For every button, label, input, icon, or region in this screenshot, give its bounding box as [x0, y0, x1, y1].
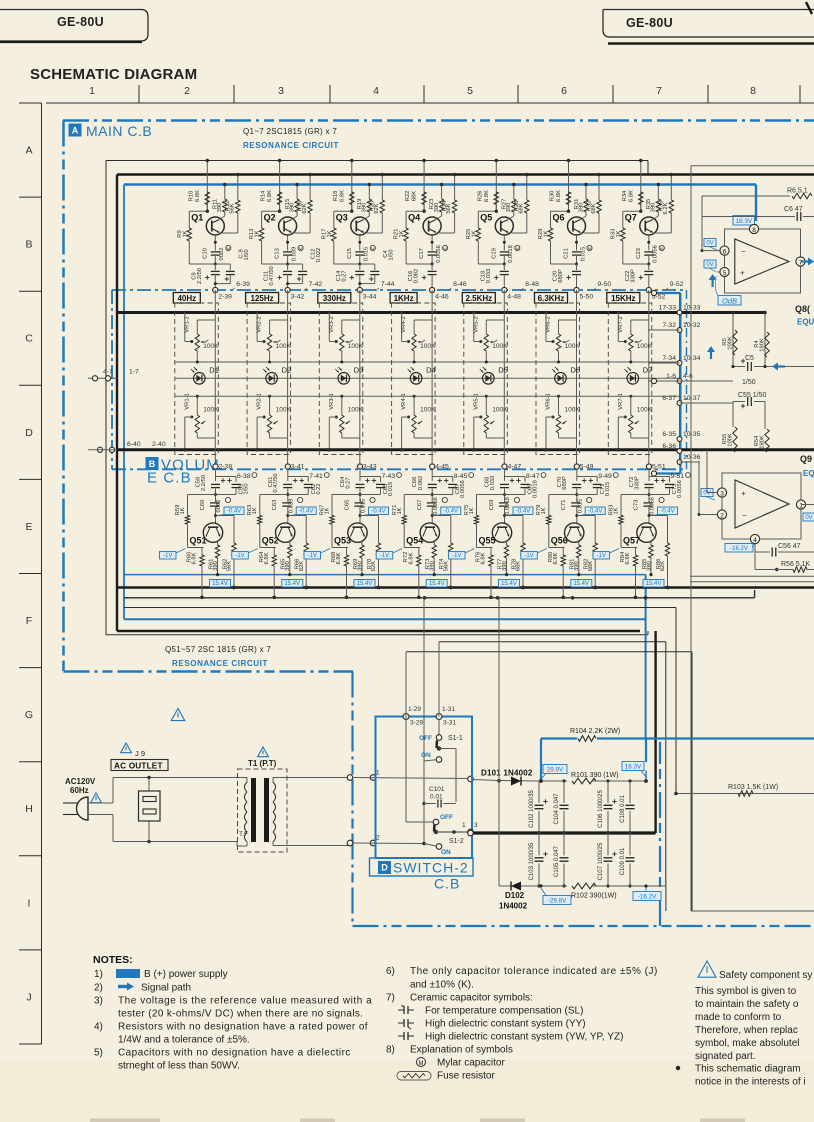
svg-text:8: 8: [750, 85, 756, 97]
svg-text:6-38: 6-38: [237, 473, 251, 480]
svg-text:15.4V: 15.4V: [212, 581, 228, 587]
svg-text:C56 47: C56 47: [778, 543, 801, 550]
svg-text:390: 390: [646, 561, 652, 571]
svg-text:+: +: [740, 269, 745, 278]
svg-text:signated part.: signated part.: [695, 1051, 756, 1062]
svg-text:1-7: 1-7: [129, 369, 139, 376]
svg-text:15.4V: 15.4V: [646, 581, 662, 587]
svg-text:SWITCH-2: SWITCH-2: [393, 860, 469, 876]
svg-text:15.4V: 15.4V: [501, 581, 517, 587]
svg-text:AC120V: AC120V: [65, 777, 96, 786]
svg-text:7-43: 7-43: [382, 473, 396, 480]
svg-text:VR5-2: VR5-2: [473, 316, 479, 332]
svg-text:Q2: Q2: [264, 213, 276, 223]
svg-text:8): 8): [386, 1045, 395, 1056]
svg-text:1K: 1K: [471, 230, 477, 237]
svg-text:C6 47: C6 47: [784, 206, 803, 213]
svg-text:Capacitors with no designat: Capacitors with no designation have a di…: [118, 1048, 351, 1059]
svg-text:High dielectric constant syste: High dielectric constant system (YY): [425, 1019, 586, 1030]
svg-text:0.27: 0.27: [346, 477, 352, 488]
svg-text:0.033: 0.033: [486, 269, 492, 284]
svg-text:0.082: 0.082: [418, 476, 424, 491]
svg-text:R30: R30: [550, 191, 556, 202]
svg-text:Q3: Q3: [336, 213, 348, 223]
svg-text:6.8K: 6.8K: [195, 190, 201, 202]
svg-text:strneght of less than 50WV.: strneght of less than 50WV.: [118, 1061, 240, 1072]
svg-text:S1-1: S1-1: [448, 735, 463, 742]
svg-text:10-34: 10-34: [683, 355, 701, 362]
svg-text:2: 2: [376, 835, 380, 842]
svg-text:Q1: Q1: [191, 213, 203, 223]
svg-text:5: 5: [467, 85, 473, 97]
svg-text:MAIN C.B: MAIN C.B: [86, 123, 152, 139]
svg-text:Signal path: Signal path: [141, 983, 191, 994]
svg-text:B (+) power supply: B (+) power supply: [144, 969, 228, 980]
svg-text:2-38: 2-38: [219, 464, 233, 471]
svg-text:C71: C71: [561, 500, 567, 511]
svg-text:390: 390: [506, 203, 512, 213]
svg-text:0.015: 0.015: [577, 499, 583, 514]
svg-text:D7: D7: [643, 366, 653, 375]
svg-text:NOTES:: NOTES:: [93, 954, 133, 966]
svg-text:6-40: 6-40: [127, 441, 141, 448]
svg-text:8-48: 8-48: [525, 281, 539, 288]
svg-text:1: 1: [89, 85, 95, 97]
svg-text:6.8K: 6.8K: [553, 552, 559, 564]
svg-text:Therefore, when replac: Therefore, when replac: [695, 1025, 798, 1036]
svg-text:4-47: 4-47: [508, 464, 522, 471]
svg-text:1: 1: [462, 822, 466, 829]
svg-text:VR4-1: VR4-1: [401, 393, 407, 409]
svg-text:M: M: [371, 246, 374, 251]
svg-text:VR7-2: VR7-2: [618, 316, 624, 332]
svg-text:100K: 100K: [348, 343, 364, 350]
svg-text:2.2/50: 2.2/50: [201, 475, 207, 491]
svg-text:0.039: 0.039: [288, 499, 294, 514]
svg-text:390: 390: [362, 203, 368, 213]
svg-text:Q5: Q5: [480, 213, 492, 223]
svg-text:390: 390: [502, 561, 508, 571]
svg-text:390: 390: [434, 203, 440, 213]
svg-text:F: F: [26, 615, 32, 627]
svg-text:3-44: 3-44: [363, 294, 377, 301]
svg-text:-1V: -1V: [524, 553, 533, 559]
svg-text:Q55: Q55: [479, 536, 496, 546]
svg-text:C5: C5: [745, 355, 754, 362]
svg-text:6.8K: 6.8K: [339, 190, 345, 202]
svg-text:OdB: OdB: [722, 296, 737, 305]
svg-text:EQU: EQU: [797, 318, 814, 327]
svg-text:5): 5): [94, 1048, 103, 1059]
svg-text:6.8K: 6.8K: [556, 190, 562, 202]
svg-text:R18: R18: [333, 191, 339, 202]
svg-text:29.9V: 29.9V: [547, 767, 564, 774]
svg-text:680P: 680P: [558, 269, 564, 283]
svg-text:R103 1.5K (1W): R103 1.5K (1W): [728, 784, 778, 791]
svg-text:-1V: -1V: [452, 553, 461, 559]
svg-text:S1-2: S1-2: [449, 838, 464, 845]
svg-text:-1V: -1V: [380, 553, 389, 559]
svg-text:1K: 1K: [544, 230, 550, 237]
svg-text:62K: 62K: [302, 203, 308, 213]
svg-text:16.3V: 16.3V: [625, 764, 642, 771]
svg-text:C23: C23: [636, 248, 642, 259]
svg-text:16.3V: 16.3V: [736, 218, 753, 225]
svg-text:M: M: [443, 246, 446, 251]
svg-text:0.01: 0.01: [430, 794, 443, 801]
svg-text:4-46: 4-46: [435, 294, 449, 301]
svg-text:6.8K: 6.8K: [625, 552, 631, 564]
svg-text:7-42: 7-42: [309, 281, 323, 288]
svg-text:M: M: [588, 246, 591, 251]
svg-text:7-44: 7-44: [381, 281, 395, 288]
svg-text:15.4V: 15.4V: [429, 581, 445, 587]
svg-text:6: 6: [561, 85, 567, 97]
svg-text:0.0056: 0.0056: [436, 245, 442, 263]
svg-text:C102 1000/35: C102 1000/35: [529, 789, 535, 827]
svg-text:1K: 1K: [469, 507, 475, 514]
svg-text:Fuse resistor: Fuse resistor: [437, 1071, 495, 1082]
svg-text:3-42: 3-42: [291, 294, 305, 301]
svg-text:For temperature compensation (: For temperature compensation (SL): [425, 1006, 583, 1017]
svg-text:390: 390: [217, 203, 223, 213]
svg-text:2.5KHz: 2.5KHz: [465, 294, 492, 303]
svg-text:6.8K: 6.8K: [264, 552, 270, 564]
svg-text:Q8(: Q8(: [795, 304, 810, 314]
svg-text:3: 3: [474, 822, 478, 829]
svg-text:56K: 56K: [227, 561, 233, 571]
svg-text:62K: 62K: [374, 203, 380, 213]
svg-text:62K: 62K: [660, 561, 666, 571]
svg-text:D: D: [381, 863, 388, 873]
svg-text:15.4V: 15.4V: [357, 581, 373, 587]
svg-text:6-35: 6-35: [662, 431, 676, 438]
svg-text:0.015: 0.015: [605, 482, 611, 497]
svg-text:Q7: Q7: [625, 213, 637, 223]
svg-text:180K: 180K: [760, 435, 766, 449]
svg-text:C.B: C.B: [434, 876, 460, 892]
svg-text:1K: 1K: [182, 230, 188, 237]
svg-text:2.2/50: 2.2/50: [197, 268, 203, 284]
svg-text:C65: C65: [345, 500, 351, 511]
svg-text:15KHz: 15KHz: [611, 294, 635, 303]
svg-text:C10: C10: [202, 248, 208, 259]
svg-text:This symbol is given to: This symbol is given to: [695, 986, 797, 997]
svg-text:1: 1: [799, 502, 803, 509]
svg-text:-1V: -1V: [163, 553, 172, 559]
svg-text:62K: 62K: [371, 561, 377, 571]
svg-text:7: 7: [656, 85, 662, 97]
svg-text:1K: 1K: [252, 507, 258, 514]
svg-text:0V: 0V: [706, 241, 713, 247]
svg-text:0.082: 0.082: [414, 269, 420, 284]
svg-text:Q1~7 2SC1815 (GR) x 7: Q1~7 2SC1815 (GR) x 7: [243, 127, 337, 136]
svg-text:125Hz: 125Hz: [251, 294, 274, 303]
svg-text:8-47: 8-47: [526, 473, 540, 480]
svg-text:100K: 100K: [492, 343, 508, 350]
svg-text:0.22: 0.22: [316, 483, 322, 494]
svg-text:-0.4V: -0.4V: [660, 509, 674, 515]
svg-text:56K: 56K: [230, 203, 236, 213]
svg-text:E: E: [25, 521, 32, 533]
svg-text:-0.4V: -0.4V: [516, 509, 530, 515]
svg-text:R22: R22: [405, 191, 411, 202]
svg-text:68K: 68K: [588, 561, 594, 571]
svg-text:1): 1): [94, 969, 103, 980]
svg-text:68K: 68K: [591, 203, 597, 213]
svg-text:VR6-1: VR6-1: [546, 393, 552, 409]
svg-text:100K: 100K: [348, 407, 364, 414]
svg-text:680P: 680P: [562, 476, 568, 490]
svg-text:Q57: Q57: [623, 536, 640, 546]
svg-text:AC OUTLET: AC OUTLET: [114, 761, 163, 770]
svg-text:M: M: [660, 246, 663, 251]
svg-text:Q9: Q9: [800, 454, 812, 464]
svg-text:I: I: [28, 897, 31, 909]
svg-text:R102 390(1W): R102 390(1W): [571, 893, 617, 900]
svg-text:15.4V: 15.4V: [573, 581, 589, 587]
svg-text:D3: D3: [354, 366, 364, 375]
svg-text:15.4V: 15.4V: [284, 581, 300, 587]
svg-text:1K: 1K: [397, 507, 403, 514]
svg-text:B: B: [149, 459, 156, 469]
svg-text:and ±10% (K).: and ±10% (K).: [410, 980, 474, 991]
svg-text:symbol, make absolutel: symbol, make absolutel: [695, 1038, 800, 1049]
svg-text:1K: 1K: [541, 507, 547, 514]
svg-text:C103 1000/35: C103 1000/35: [529, 842, 535, 880]
svg-text:C73: C73: [634, 500, 640, 511]
svg-text:7): 7): [386, 993, 395, 1004]
svg-text:2: 2: [720, 512, 724, 519]
svg-text:0082: 0082: [219, 248, 225, 261]
svg-text:5-51: 5-51: [652, 464, 666, 471]
svg-text:-0.4V: -0.4V: [371, 509, 385, 515]
svg-text:1/50: 1/50: [244, 483, 250, 494]
svg-text:100K: 100K: [276, 343, 292, 350]
svg-text:62K: 62K: [299, 561, 305, 571]
svg-text:E C.B: E C.B: [147, 470, 192, 487]
svg-text:J 9: J 9: [135, 749, 145, 758]
svg-text:RESONANCE CIRCUIT: RESONANCE CIRCUIT: [172, 659, 268, 668]
svg-text:1/4W and a tolerance of ±5%.: 1/4W and a tolerance of ±5%.: [118, 1035, 250, 1046]
svg-text:0V: 0V: [805, 515, 812, 521]
svg-text:1-6: 1-6: [666, 373, 676, 380]
svg-text:0.0056: 0.0056: [653, 245, 659, 263]
svg-text:M: M: [227, 246, 230, 251]
svg-text:4-48: 4-48: [507, 294, 521, 301]
svg-text:9-50: 9-50: [598, 281, 612, 288]
svg-text:C101: C101: [429, 786, 445, 793]
svg-text:VR7-1: VR7-1: [618, 393, 624, 409]
svg-text:2): 2): [94, 983, 103, 994]
svg-text:made to conform to: made to conform to: [695, 1012, 782, 1023]
svg-text:7-34: 7-34: [662, 355, 676, 362]
svg-text:C106 1000/25: C106 1000/25: [598, 789, 604, 827]
svg-text:7-41: 7-41: [309, 473, 323, 480]
svg-text:Mylar capacitor: Mylar capacitor: [437, 1058, 505, 1069]
svg-text:1K: 1K: [180, 507, 186, 514]
svg-text:100K: 100K: [203, 407, 219, 414]
svg-text:0.015: 0.015: [361, 499, 367, 514]
svg-text:R26: R26: [477, 191, 483, 202]
svg-text:5-49: 5-49: [580, 464, 594, 471]
svg-text:GE-80U: GE-80U: [57, 15, 104, 29]
svg-text:C: C: [25, 333, 33, 345]
svg-text:100K: 100K: [728, 336, 734, 350]
svg-text:G: G: [25, 709, 33, 721]
svg-text:3-41: 3-41: [291, 464, 305, 471]
svg-text:10-32: 10-32: [683, 322, 701, 329]
svg-text:68K: 68K: [412, 191, 418, 201]
svg-text:VR2-1: VR2-1: [257, 393, 263, 409]
svg-text:-1V: -1V: [308, 553, 317, 559]
svg-text:1N4002: 1N4002: [499, 902, 528, 911]
svg-text:VR1-2: VR1-2: [184, 316, 190, 332]
svg-text:0.022: 0.022: [316, 248, 322, 263]
svg-text:R56 5.1K: R56 5.1K: [781, 561, 811, 568]
svg-text:68K: 68K: [516, 561, 522, 571]
svg-text:-0.4V: -0.4V: [444, 509, 458, 515]
svg-text:6.8K: 6.8K: [484, 190, 490, 202]
svg-text:-1V: -1V: [235, 553, 244, 559]
svg-text:1K: 1K: [327, 230, 333, 237]
svg-text:−: −: [741, 247, 746, 256]
svg-text:3-31: 3-31: [443, 720, 456, 727]
svg-text:D1: D1: [209, 366, 219, 375]
svg-text:R10: R10: [188, 191, 194, 202]
svg-text:0.0018: 0.0018: [508, 245, 514, 263]
svg-text:100K: 100K: [203, 343, 219, 350]
svg-text:M: M: [516, 246, 519, 251]
svg-text:R14: R14: [261, 190, 267, 201]
svg-text:-0.4V: -0.4V: [299, 509, 313, 515]
svg-text:1K: 1K: [255, 230, 261, 237]
svg-text:10-37: 10-37: [683, 395, 701, 402]
svg-text:M: M: [299, 246, 302, 251]
svg-text:R104 2.2K (2W): R104 2.2K (2W): [570, 728, 620, 735]
svg-text:0.47/50: 0.47/50: [273, 473, 279, 492]
svg-text:C108 0.01: C108 0.01: [620, 795, 626, 823]
svg-text:10-33: 10-33: [683, 305, 701, 312]
svg-text:C21: C21: [564, 248, 570, 259]
svg-text:-16.2V: -16.2V: [730, 546, 748, 552]
svg-text:C55 1/50: C55 1/50: [738, 392, 767, 399]
svg-text:C69: C69: [489, 500, 495, 511]
svg-text:3: 3: [278, 85, 284, 97]
svg-text:D5: D5: [498, 366, 508, 375]
svg-text:56K: 56K: [443, 561, 449, 571]
svg-text:6-37: 6-37: [662, 395, 676, 402]
svg-text:6.8K: 6.8K: [267, 190, 273, 202]
svg-text:3: 3: [720, 490, 724, 497]
svg-text:0.0056: 0.0056: [460, 480, 466, 498]
svg-text:2-39: 2-39: [218, 294, 232, 301]
svg-text:D102: D102: [505, 891, 525, 900]
svg-text:5-50: 5-50: [580, 294, 594, 301]
svg-text:3): 3): [94, 996, 103, 1007]
svg-text:3-43: 3-43: [363, 464, 377, 471]
svg-text:10-36: 10-36: [683, 454, 701, 461]
svg-text:0.039: 0.039: [291, 247, 297, 262]
svg-text:1K: 1K: [614, 507, 620, 514]
svg-text:Q53: Q53: [334, 536, 351, 546]
svg-text:6.8K: 6.8K: [192, 552, 198, 564]
svg-text:100K: 100K: [492, 407, 508, 414]
svg-text:B: B: [25, 239, 32, 251]
svg-text:C67: C67: [417, 500, 423, 511]
svg-text:ON: ON: [421, 752, 431, 759]
svg-text:0082: 0082: [216, 500, 222, 513]
svg-text:C107 1000/25: C107 1000/25: [598, 842, 604, 880]
svg-text:-0.4V: -0.4V: [227, 509, 241, 515]
svg-text:1KHz: 1KHz: [394, 294, 414, 303]
svg-text:OFF: OFF: [419, 735, 432, 742]
svg-text:100K: 100K: [728, 433, 734, 447]
svg-text:2: 2: [184, 85, 190, 97]
svg-text:7: 7: [799, 259, 803, 266]
svg-text:1: 1: [376, 770, 380, 777]
svg-text:C60: C60: [200, 500, 206, 511]
svg-text:390: 390: [574, 561, 580, 571]
svg-text:T1 (P.T): T1 (P.T): [248, 759, 277, 768]
svg-text:4-45: 4-45: [435, 464, 449, 471]
svg-text:VR1-1: VR1-1: [184, 393, 190, 409]
svg-text:1/50: 1/50: [388, 249, 394, 260]
svg-text:VR6-2: VR6-2: [546, 316, 552, 332]
svg-text:1-31: 1-31: [442, 706, 455, 713]
svg-text:6.8K: 6.8K: [336, 552, 342, 564]
svg-text:1K: 1K: [399, 230, 405, 237]
svg-text:390: 390: [213, 561, 219, 571]
svg-text:100K: 100K: [276, 407, 292, 414]
svg-text:ON: ON: [441, 849, 451, 856]
svg-text:VR3-1: VR3-1: [329, 393, 335, 409]
svg-text:4: 4: [753, 537, 757, 544]
svg-text:8: 8: [752, 227, 756, 234]
svg-text:100K: 100K: [565, 407, 581, 414]
svg-text:High dielectric constant syste: High dielectric constant system (YW, YP,…: [425, 1032, 623, 1043]
svg-text:6.8K: 6.8K: [628, 190, 634, 202]
svg-text:8-45: 8-45: [454, 473, 468, 480]
svg-text:4: 4: [373, 85, 379, 97]
svg-text:1/50: 1/50: [244, 249, 250, 260]
svg-text:Q51: Q51: [190, 536, 207, 546]
svg-text:Q51~57 2SC 1815 (GR) x 7: Q51~57 2SC 1815 (GR) x 7: [165, 645, 271, 654]
svg-text:6-39: 6-39: [236, 281, 250, 288]
svg-text:Q6: Q6: [553, 213, 565, 223]
svg-text:C13: C13: [275, 248, 281, 259]
svg-text:1/50: 1/50: [742, 379, 756, 386]
svg-text:tester (20 k-ohms/V DC) when t: tester (20 k-ohms/V DC) when there are n…: [118, 1009, 363, 1020]
svg-text:10-35: 10-35: [683, 431, 701, 438]
svg-text:R6 5.1: R6 5.1: [787, 188, 808, 195]
svg-text:M: M: [419, 1061, 424, 1067]
svg-text:notice in the interests of i: notice in the interests of i: [695, 1077, 806, 1088]
svg-text:100K: 100K: [420, 343, 436, 350]
svg-text:Safety component sy: Safety component sy: [719, 970, 812, 981]
svg-text:C17: C17: [419, 248, 425, 259]
svg-text:C15: C15: [347, 248, 353, 259]
svg-text:390: 390: [430, 561, 436, 571]
svg-text:D101 1N4002: D101 1N4002: [481, 769, 533, 778]
svg-text:J: J: [26, 991, 31, 1003]
svg-text:5: 5: [723, 270, 727, 277]
svg-text:VR3-2: VR3-2: [329, 316, 335, 332]
svg-text:R34: R34: [622, 190, 628, 201]
svg-text:40Hz: 40Hz: [177, 294, 196, 303]
svg-text:60Hz: 60Hz: [70, 786, 89, 795]
svg-text:A: A: [25, 145, 32, 157]
